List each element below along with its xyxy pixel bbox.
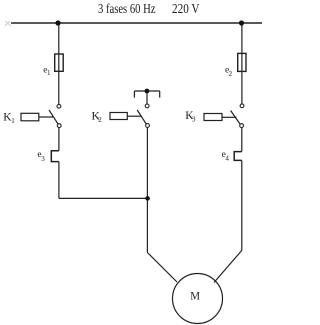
svg-text:4: 4 (225, 155, 229, 163)
svg-text:3: 3 (41, 155, 45, 163)
svg-text:1: 1 (47, 69, 51, 77)
svg-text:2: 2 (229, 70, 233, 78)
svg-text:3 fases 60 Hz: 3 fases 60 Hz (98, 2, 156, 17)
svg-text:M: M (190, 289, 200, 303)
svg-text:2: 2 (98, 116, 102, 124)
svg-text:220 V: 220 V (172, 2, 200, 17)
svg-text:3: 3 (192, 116, 196, 124)
svg-text:1: 1 (11, 117, 15, 125)
